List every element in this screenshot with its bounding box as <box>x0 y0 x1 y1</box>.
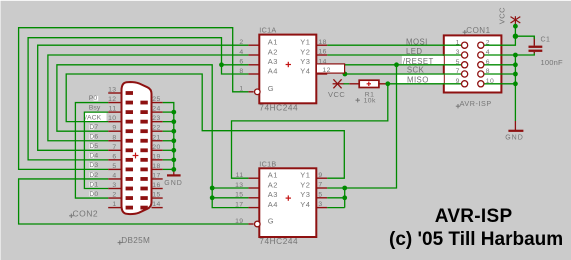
wire CON1 right pins 4,6,8,10 to GND line <box>484 54 515 56</box>
net label white tile /RESET <box>402 56 444 64</box>
wire CON1 pin2 to VCC <box>484 25 515 45</box>
svg-text:16: 16 <box>318 49 326 56</box>
svg-text:10: 10 <box>108 115 116 122</box>
connector CON1 (AVR-ISP 10-pin) body <box>444 35 502 92</box>
svg-text:GND: GND <box>505 134 524 141</box>
svg-text:12: 12 <box>322 67 330 74</box>
svg-text:7: 7 <box>456 68 460 75</box>
svg-text:14: 14 <box>152 201 160 208</box>
wire net D5: DB25 pin7 -> IC1A A1 <box>38 45 249 150</box>
svg-text:Y3: Y3 <box>300 57 310 66</box>
svg-text:GND: GND <box>164 180 183 187</box>
svg-text:D2: D2 <box>89 172 98 179</box>
svg-text:21: 21 <box>152 134 160 141</box>
svg-text:16: 16 <box>152 182 160 189</box>
wire net SCK: IC1A Y4 -> CON1 pin7 <box>345 73 462 75</box>
svg-text:G: G <box>268 216 274 225</box>
svg-text:D4: D4 <box>89 153 98 160</box>
svg-text:10k: 10k <box>364 98 376 105</box>
svg-text:5: 5 <box>112 163 116 170</box>
svg-text:A1: A1 <box>268 171 278 180</box>
wire net MISO: CON1 pin9 -> R1 -> IC1B A1 (pin11) <box>388 83 462 85</box>
svg-text:18: 18 <box>152 163 160 170</box>
svg-text:4: 4 <box>239 49 243 56</box>
svg-text:D7: D7 <box>89 124 98 131</box>
svg-text:Y1: Y1 <box>300 38 310 47</box>
svg-text:A2: A2 <box>268 180 278 189</box>
VCC supply symbol (left of R1) <box>333 83 345 85</box>
svg-text:IC1B: IC1B <box>259 159 276 168</box>
wire net D7: DB25 pin9 -> IC1B A2/A3/A4 <box>57 65 249 208</box>
svg-text:SCK: SCK <box>407 66 425 75</box>
svg-text:MOSI: MOSI <box>406 37 428 46</box>
svg-text:CON2: CON2 <box>73 209 99 219</box>
svg-text:4: 4 <box>486 49 490 56</box>
svg-text:3: 3 <box>456 49 460 56</box>
svg-text:D3: D3 <box>89 162 98 169</box>
svg-text:CON1: CON1 <box>466 26 490 35</box>
svg-text:4: 4 <box>112 172 116 179</box>
wire C1 bottom to GND line <box>515 53 534 55</box>
svg-text:13: 13 <box>235 182 243 189</box>
svg-text:1: 1 <box>239 86 243 93</box>
svg-text:11: 11 <box>109 106 117 113</box>
svg-text:18: 18 <box>318 39 326 46</box>
svg-text:IC1A: IC1A <box>259 26 276 35</box>
GND symbol (below CON1) <box>514 121 516 130</box>
svg-text:15: 15 <box>152 192 160 199</box>
svg-text:6: 6 <box>112 153 116 160</box>
svg-text:A4: A4 <box>268 66 278 75</box>
svg-text:7: 7 <box>112 144 116 151</box>
C1 leads <box>533 36 535 45</box>
IC1B pin stubs <box>248 177 259 179</box>
svg-text:D5: D5 <box>89 143 98 150</box>
svg-text:15: 15 <box>235 192 243 199</box>
svg-text:3: 3 <box>318 201 322 208</box>
svg-text:25: 25 <box>152 96 160 103</box>
wire GND line below CON1 <box>514 55 516 121</box>
svg-text:19: 19 <box>235 218 243 225</box>
svg-text:P0: P0 <box>89 95 98 102</box>
svg-text:7: 7 <box>318 182 322 189</box>
DB25 right column pin pads pins 14-25 <box>140 206 147 210</box>
svg-text:Bsy: Bsy <box>89 105 101 112</box>
wire VCC arrow to R1 left lead <box>344 83 350 85</box>
svg-text:A4: A4 <box>268 200 278 209</box>
svg-text:1: 1 <box>456 39 460 46</box>
GND symbol (below DB25 GND bus) <box>173 169 175 175</box>
VCC supply symbol (top, above CON1) <box>514 16 516 25</box>
svg-text:9: 9 <box>112 125 116 132</box>
svg-text:AVR-ISP: AVR-ISP <box>460 99 492 108</box>
wire net MOSI: IC1A Y1 -> CON1 pin1 <box>327 44 461 46</box>
svg-text:8: 8 <box>239 68 243 75</box>
svg-text:1: 1 <box>112 201 116 208</box>
IC1A G pin inverting circle <box>254 89 260 95</box>
IC1A pin stubs <box>248 44 259 46</box>
wire GND bus on DB25 pins 18-25 <box>163 103 174 170</box>
connector CON2 DB25M body <box>122 82 152 214</box>
svg-text:12: 12 <box>108 96 116 103</box>
svg-text:74HC244: 74HC244 <box>259 102 298 112</box>
svg-text:Y4: Y4 <box>300 66 310 75</box>
svg-text:Y3: Y3 <box>300 190 310 199</box>
DB25 right pin stubs pins 14-25 <box>152 207 163 209</box>
svg-text:A3: A3 <box>268 57 278 66</box>
svg-text:3: 3 <box>112 182 116 189</box>
svg-text:10: 10 <box>486 78 494 85</box>
svg-text:D0: D0 <box>89 191 98 198</box>
svg-text:100nF: 100nF <box>541 58 563 67</box>
capacitor C1 plates <box>529 46 543 48</box>
svg-text:2: 2 <box>239 39 243 46</box>
svg-text:DB25M: DB25M <box>121 236 150 245</box>
svg-text:Y1: Y1 <box>300 171 310 180</box>
wire VCC branch to C1 top <box>515 36 534 39</box>
svg-text:A1: A1 <box>268 38 278 47</box>
svg-text:Y2: Y2 <box>300 47 310 56</box>
svg-text:13: 13 <box>108 87 116 94</box>
wire net P0: DB25 pin12 -> DB25 pin2 (D0) <box>75 103 108 199</box>
svg-text:9: 9 <box>318 172 322 179</box>
wire net D6: DB25 pin8 -> IC1A A2 <box>48 55 249 141</box>
svg-text:8: 8 <box>112 134 116 141</box>
svg-text:VCC: VCC <box>498 7 507 24</box>
wire net LED: IC1A Y2 -> CON1 pin3 <box>327 54 461 56</box>
IC1B G pin inverting circle <box>254 221 260 227</box>
svg-text:74HC244: 74HC244 <box>259 236 298 246</box>
wire net D4: DB25 pin6 -> IC1A A3+A4 <box>28 38 248 160</box>
svg-text:A2: A2 <box>268 47 278 56</box>
svg-text:D1: D1 <box>89 181 98 188</box>
DB25 center origin cross <box>133 155 139 157</box>
svg-text:LED: LED <box>406 47 423 56</box>
svg-text:14: 14 <box>318 58 326 65</box>
svg-text:17: 17 <box>152 172 160 179</box>
svg-text:/ACK: /ACK <box>85 114 102 121</box>
svg-text:AVR-ISP: AVR-ISP <box>435 206 513 227</box>
svg-text:20: 20 <box>152 144 160 151</box>
resistor R1 body <box>359 80 379 87</box>
svg-text:(c) '05 Till Harbaum: (c) '05 Till Harbaum <box>389 229 563 250</box>
svg-text:Y4: Y4 <box>300 200 310 209</box>
svg-text:A3: A3 <box>268 190 278 199</box>
svg-text:G: G <box>268 84 274 93</box>
svg-text:9: 9 <box>456 78 460 85</box>
svg-text:5: 5 <box>318 191 322 198</box>
svg-text:19: 19 <box>152 153 160 160</box>
svg-text:22: 22 <box>152 125 160 132</box>
svg-text:2: 2 <box>112 192 116 199</box>
DB25 left pin stubs pins 1-13 <box>108 207 121 209</box>
CON1 pin circles <box>462 42 468 48</box>
wire net D3: DB25 pin5 -> IC1A G (pin1) <box>19 28 249 170</box>
IC1A pin 12 number box <box>316 64 344 73</box>
svg-text:17: 17 <box>235 201 243 208</box>
svg-text:6: 6 <box>486 59 490 66</box>
buffer IC1B (74HC244 gate B) body <box>259 168 316 237</box>
wire net Bsy: DB25 pin11 -> DB25 pin3 (D1) <box>84 112 108 188</box>
net label white tile /ACK <box>85 113 107 122</box>
svg-text:5: 5 <box>456 59 460 66</box>
svg-text:MISO: MISO <box>407 76 429 85</box>
white glyph tiles on D labels <box>89 125 94 130</box>
svg-text:2: 2 <box>486 39 490 46</box>
svg-text:C1: C1 <box>541 37 551 44</box>
svg-text:23: 23 <box>152 115 160 122</box>
svg-text:6: 6 <box>239 59 243 66</box>
wire net D2: DB25 pin4 -> IC1B G (pin19) <box>19 179 249 224</box>
net label white tile MISO <box>397 75 444 84</box>
DB25 left column pin pads pins 1-13 <box>126 206 133 210</box>
svg-text:24: 24 <box>152 106 160 113</box>
svg-text:11: 11 <box>236 172 244 179</box>
wire net /ACK: DB25 pin10 -> IC1B Y1 (pin9) <box>66 74 344 178</box>
junction dots <box>219 62 224 67</box>
svg-text:8: 8 <box>486 68 490 75</box>
svg-text:D6: D6 <box>89 134 98 141</box>
buffer IC1A (74HC244 gate A) body <box>259 35 316 104</box>
svg-text:VCC: VCC <box>328 90 345 99</box>
wire net /RESET: IC1A Y3 -> CON1 pin5 + branch to IC1B Y2/Y3/Y4 <box>327 64 461 66</box>
svg-text:Y2: Y2 <box>300 180 310 189</box>
